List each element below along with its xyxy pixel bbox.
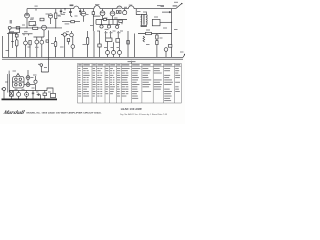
tube V2b <box>48 14 52 18</box>
node OT junction <box>171 22 172 23</box>
label mid2 <box>113 31 116 32</box>
label T2 <box>143 12 147 13</box>
resistor R21 <box>116 39 120 43</box>
label INPUT <box>10 20 12 24</box>
resistor R20 bridge <box>106 38 112 42</box>
tube V1 <box>25 13 30 18</box>
label R2 <box>22 25 25 26</box>
label T1 <box>13 71 17 72</box>
label mains <box>9 71 10 74</box>
wire feedback <box>138 33 160 35</box>
wire crossing loop 4 <box>128 6 134 9</box>
label right2 <box>174 29 178 30</box>
wire mains pair <box>8 74 10 93</box>
pot VR8 <box>106 42 110 58</box>
fuse F1 <box>38 64 43 67</box>
label V2c <box>86 14 89 15</box>
tube V2c <box>81 9 86 16</box>
tube V1c <box>35 37 39 57</box>
label V5 <box>66 31 69 32</box>
node HT arrowhead <box>169 11 171 13</box>
label V3b <box>114 18 118 19</box>
label VR10 <box>117 47 121 48</box>
label fuse <box>44 67 47 68</box>
capacitor C4 <box>79 9 82 16</box>
label R19 <box>83 44 87 45</box>
wire presence <box>156 34 158 58</box>
tube V5b <box>70 31 74 37</box>
wire drop x134 <box>134 34 136 58</box>
node HT terminal <box>181 3 182 4</box>
wire HT drop right <box>171 9 173 34</box>
capacitor C23 <box>32 91 34 100</box>
label C3b <box>75 16 78 17</box>
wire drop x64 <box>64 36 66 57</box>
wire cap bus <box>9 90 47 92</box>
wire mid x48 cluster <box>46 40 49 42</box>
pot VR10 <box>118 42 122 57</box>
pot VR4 <box>100 25 103 28</box>
capacitor C1 <box>40 18 44 21</box>
tube V5a <box>61 33 69 36</box>
wire table tick <box>131 61 133 64</box>
label C8 <box>117 8 121 9</box>
wire rectifier out <box>30 85 36 91</box>
label V1b <box>28 47 31 48</box>
resistor R30 <box>16 40 19 58</box>
label 68k <box>65 23 70 24</box>
label V1c <box>35 47 39 48</box>
wire left screen <box>92 9 94 31</box>
svg-text:Drg. No. A/B.22 Iss. 4 Drawn: Drg. No. A/B.22 Iss. 4 Drawn by J. Brand… <box>120 113 167 116</box>
winding T1c <box>15 83 18 86</box>
resistor R15 <box>103 18 106 20</box>
tube V3a <box>100 9 105 16</box>
wire V2b stem <box>50 18 52 24</box>
wire drop x128 <box>127 31 129 57</box>
pot VR5 <box>107 25 110 28</box>
wire HT arrow <box>162 11 169 13</box>
resistor R25 <box>156 41 158 45</box>
label mid4 <box>90 25 93 26</box>
wire mixer <box>62 21 80 23</box>
label R6 <box>58 16 61 17</box>
jack J2 speaker <box>164 48 168 58</box>
wire driver row <box>96 19 127 21</box>
label trio c <box>117 32 121 33</box>
capacitor C3 <box>69 9 72 17</box>
capacitor C7 <box>116 11 118 14</box>
wire ground rail lower <box>2 58 183 60</box>
label TB1 <box>48 92 51 93</box>
wire crossing loop 2 <box>94 6 100 9</box>
resistor R1b <box>15 33 18 40</box>
wire HT rail <box>27 8 172 10</box>
transformer T1 <box>13 73 25 88</box>
label trio a <box>105 32 108 33</box>
resistor R9 <box>71 21 75 23</box>
switch S2 standby <box>172 4 182 9</box>
label R3 <box>33 25 37 26</box>
label HT box <box>173 5 178 6</box>
tube V1b <box>24 37 28 57</box>
impedance selector box <box>152 19 160 25</box>
tube V3b <box>110 9 115 16</box>
wire psu right link <box>47 88 53 91</box>
capacitor C21 <box>17 91 21 100</box>
svg-text:Marshall: Marshall <box>1 110 25 116</box>
wire V2 coupling <box>48 30 50 62</box>
label hump2 <box>129 5 133 6</box>
label terminal <box>174 2 178 3</box>
tube V1d <box>40 37 44 57</box>
label C21 <box>15 89 18 90</box>
transformer T2 core <box>143 15 144 25</box>
svg-text:MODEL No. 1959 LEAD 100 WATT A: MODEL No. 1959 LEAD 100 WATT AMPLIFIER C… <box>27 112 103 115</box>
resistor R18 <box>67 39 70 45</box>
label node B <box>95 4 99 5</box>
capacitor C24 <box>37 93 41 95</box>
label tick <box>35 6 38 7</box>
jack J1 input <box>8 26 11 32</box>
resistor R11 <box>92 12 94 15</box>
rectifier D1 <box>26 76 30 80</box>
label VR9 <box>111 47 114 48</box>
wire left edge <box>2 36 4 57</box>
table headers <box>78 64 180 65</box>
wire rectifier chain <box>24 70 28 85</box>
label R24 <box>160 38 163 39</box>
table row text <box>78 68 180 101</box>
resistor R16 <box>119 20 123 22</box>
resistor R3 <box>33 27 38 29</box>
node grid tick <box>35 9 37 11</box>
label rail end <box>180 52 184 53</box>
label mid3 <box>120 31 123 32</box>
resistor R19 <box>86 31 88 57</box>
resistor R40 <box>43 93 47 96</box>
resistor R7 <box>54 37 57 57</box>
wire lower row <box>96 23 120 25</box>
label C2b <box>58 15 61 16</box>
label V3a <box>104 18 108 19</box>
wire ground rail upper <box>2 56 183 58</box>
wire V3b stem <box>112 16 114 20</box>
transformer T2 secondary <box>145 15 148 25</box>
label bias b <box>24 31 28 32</box>
label left mid <box>6 50 9 51</box>
resistor R6 anode <box>55 9 57 19</box>
wire ground rail end <box>183 55 185 58</box>
node rail end <box>184 54 185 55</box>
wire drop x12 <box>12 35 14 48</box>
wire V2c down <box>83 16 85 22</box>
wire tone top <box>34 30 45 37</box>
wire drop x8 <box>8 35 10 57</box>
wire R6 lower <box>55 19 57 29</box>
capacitor C2 <box>60 9 65 15</box>
wire V1 cathode <box>26 18 28 28</box>
label R22 <box>146 30 150 31</box>
wire drop x94 <box>93 31 95 57</box>
wire bias ticks <box>9 33 29 35</box>
label VR8 <box>104 47 107 48</box>
label right1 <box>163 28 167 29</box>
diode D3 <box>34 76 37 83</box>
wire driver drops <box>96 20 122 26</box>
wire bias rail b <box>22 33 33 35</box>
resistor R24 <box>156 35 158 39</box>
label R26 <box>164 50 168 51</box>
resistor R28 <box>98 44 101 47</box>
resistor R31 <box>29 40 31 57</box>
pot VR6 <box>116 25 119 28</box>
label node A <box>70 5 74 7</box>
label R2 box <box>30 19 34 20</box>
node presence junction <box>159 33 160 34</box>
parts table frame <box>78 64 182 104</box>
label 475V <box>157 5 164 6</box>
pot VR9 <box>112 42 116 57</box>
label R15 <box>105 29 109 30</box>
label plug <box>5 82 8 83</box>
node HT junction <box>64 8 65 10</box>
wire fuse down <box>41 62 48 72</box>
resistor R29 <box>127 41 130 45</box>
label V8 <box>31 77 34 78</box>
plug P1 <box>1 88 5 100</box>
label C2 <box>63 12 66 13</box>
resistor R22 <box>146 32 152 34</box>
tube V4 <box>123 9 127 15</box>
wire V3a stem <box>102 16 104 20</box>
terminal block TB1 <box>51 91 56 98</box>
wire bias rail a <box>7 32 18 34</box>
wire drop x99 <box>99 31 101 57</box>
resistor R2 box <box>29 22 36 26</box>
resistor R23 zigzag <box>143 36 145 42</box>
wire selector out <box>160 21 172 23</box>
label choke <box>32 88 35 89</box>
label mid x60 <box>60 47 64 48</box>
label R7 <box>51 43 55 44</box>
tube V5c <box>71 37 75 58</box>
ground bus PSU <box>2 98 58 100</box>
resistor R1 grid <box>16 27 20 29</box>
label selector <box>154 17 158 18</box>
wire crossing loop 1 <box>74 6 79 8</box>
label mid1 <box>97 31 100 32</box>
wire input bus <box>11 27 62 29</box>
label C22 <box>22 89 25 90</box>
wire input sub <box>9 28 20 33</box>
wire OT feed <box>136 9 141 15</box>
label trio b <box>110 32 113 33</box>
label R23 <box>146 44 150 45</box>
capacitor C22 <box>25 91 29 100</box>
label V4 <box>124 7 127 8</box>
wire psu drops <box>12 91 45 100</box>
label V1 bias <box>31 18 35 19</box>
label OT <box>137 11 141 12</box>
label bias a <box>10 31 14 32</box>
wire drop trio <box>106 31 119 39</box>
capacitor C20 can <box>9 91 13 96</box>
wire T2 links <box>141 13 146 27</box>
capacitor C8 <box>119 11 121 14</box>
winding T1b <box>19 78 22 81</box>
winding T1a <box>15 78 18 81</box>
resistor R26 <box>168 45 172 48</box>
label psu mid <box>33 75 37 76</box>
label above table <box>128 61 136 62</box>
rectifier D2 <box>26 83 30 87</box>
svg-text:LEAD 100 AMP.: LEAD 100 AMP. <box>121 107 143 111</box>
wire to ground right <box>160 34 172 58</box>
label R30 <box>11 41 14 42</box>
transformer T2 primary <box>140 15 143 25</box>
label V2b <box>46 14 50 15</box>
wire V1 anode <box>26 9 28 14</box>
wire y16 <box>93 15 100 17</box>
label C24 <box>36 92 39 93</box>
tube V2a <box>42 25 47 30</box>
winding T1d <box>19 83 22 86</box>
wire crossing loop 3 <box>117 6 122 9</box>
label HT right <box>161 6 165 7</box>
